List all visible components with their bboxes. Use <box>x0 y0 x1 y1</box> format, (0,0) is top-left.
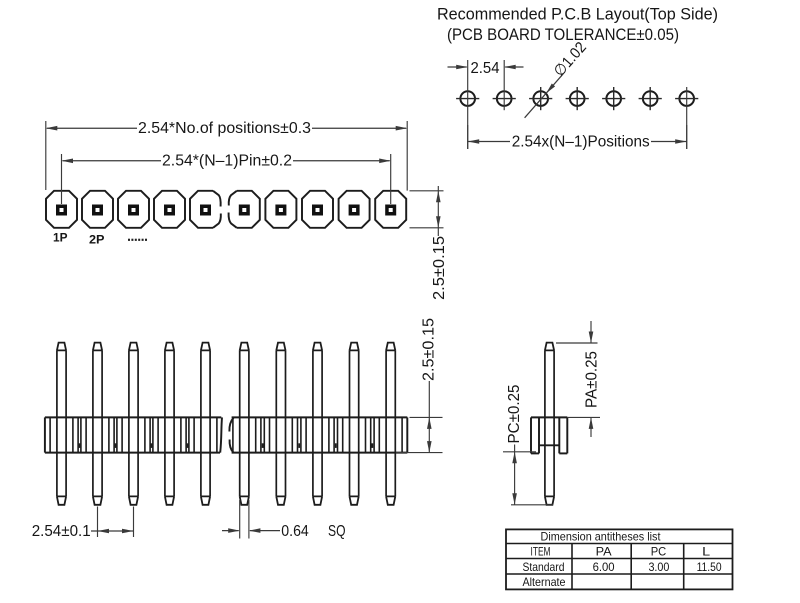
subtitle text: PCB BOARD TOLERANCE +/-0.05 <box>447 26 679 44</box>
dimension 2.54*No.of positions +/-0.3 <box>46 120 407 191</box>
svg-text:ITEM: ITEM <box>531 545 551 559</box>
svg-text:Alternate: Alternate <box>523 575 566 589</box>
pin 3 (side view) <box>129 343 138 505</box>
leader line dia 1.02 <box>525 74 564 118</box>
segment junction mark 8-9 <box>335 443 337 448</box>
header position 2 plastic body (top view) <box>82 191 113 228</box>
header position 1 plastic body (top view) <box>46 191 77 228</box>
pin 6 (side view) <box>240 343 249 505</box>
insulator segment lines pin 3 <box>117 417 150 452</box>
segment junction mark 7-8 <box>298 443 300 448</box>
single pin insulator body <box>531 417 567 453</box>
pin 1 (side view) <box>57 343 66 505</box>
header position 10 plastic body (top view) <box>375 191 406 228</box>
svg-text:Dimension antitheses list: Dimension antitheses list <box>541 530 662 544</box>
svg-text:PA: PA <box>596 545 612 559</box>
svg-text:3.00: 3.00 <box>648 560 669 574</box>
pin 8 (side view) <box>313 343 322 505</box>
svg-text:2.54x(N–1)Positions: 2.54x(N–1)Positions <box>512 133 650 150</box>
dimension table <box>506 529 733 589</box>
dimension PC +/-0.25 <box>503 385 553 505</box>
svg-text:11.50: 11.50 <box>697 560 722 574</box>
label dia 1.02 rotated <box>551 39 590 80</box>
label 2P <box>89 232 105 246</box>
pin 2 (side view) <box>93 343 102 505</box>
insulator band left section (side view) <box>45 417 222 452</box>
PCB pad hole 6 <box>639 87 662 110</box>
svg-text:Recommended P.C.B Layout(Top: Recommended P.C.B Layout(Top Side) <box>437 6 718 24</box>
segment junction mark 9-10 <box>372 443 374 448</box>
svg-text:0.64: 0.64 <box>281 523 309 540</box>
insulator segment lines pin 5 <box>189 417 217 452</box>
PCB pad hole 5 <box>602 87 625 110</box>
ellipsis dots <box>128 239 147 241</box>
svg-text:1P: 1P <box>53 231 68 245</box>
pin 4 (side view) <box>165 343 174 505</box>
insulator segment lines pin 8 <box>301 417 334 452</box>
table header row <box>531 545 711 559</box>
segment junction mark 2-3 <box>115 443 117 448</box>
header position 3 plastic body (top view) <box>118 191 149 228</box>
header position 4 plastic body (top view) <box>154 191 185 228</box>
dimension 2.54 +/-0.1 pin pitch (side view) <box>32 507 134 540</box>
PCB pad hole 4 <box>566 87 589 110</box>
svg-text:Standard: Standard <box>523 560 565 574</box>
dimension PA +/-0.25 <box>556 321 600 437</box>
svg-text:6.00: 6.00 <box>593 560 615 574</box>
pin 10 (side view) <box>386 343 395 505</box>
svg-text:PC: PC <box>651 545 667 559</box>
header position 7 plastic body (top view) <box>265 191 296 228</box>
svg-text:PC±0.25: PC±0.25 <box>506 385 523 444</box>
svg-text:2.54*(N–1)Pin±0.2: 2.54*(N–1)Pin±0.2 <box>162 152 292 169</box>
dimension 0.64 SQ pin size <box>222 500 346 540</box>
dimension 2.54x(N-1)Positions <box>468 125 687 150</box>
svg-text:(PCB BOARD TOLERANCE±0.05): (PCB BOARD TOLERANCE±0.05) <box>447 26 679 44</box>
insulator segment lines pin 9 <box>338 417 371 452</box>
table row Alternate <box>523 575 566 589</box>
svg-text:2P: 2P <box>89 232 105 246</box>
insulator segment lines pin 1 <box>50 417 78 452</box>
PCB pad hole 7 <box>675 87 698 149</box>
label 1P <box>53 231 68 245</box>
header position 9 plastic body (top view) <box>339 191 370 228</box>
svg-text:2.5±0.15: 2.5±0.15 <box>431 236 448 300</box>
insulator band right section (side view) <box>229 417 407 452</box>
insulator segment lines pin 6 <box>233 417 261 452</box>
segment junction mark 6-7 <box>262 443 264 448</box>
PCB pad hole 2 <box>493 60 516 110</box>
PCB pad hole 1 <box>456 60 479 149</box>
svg-text:2.5±0.15: 2.5±0.15 <box>420 318 437 381</box>
insulator segment lines pin 4 <box>153 417 186 452</box>
pin 9 (side view) <box>350 343 359 505</box>
header position 8 plastic body (top view) <box>302 191 333 228</box>
dimension 2.54 pad pitch <box>448 60 524 77</box>
title text: Recommended P.C.B Layout(Top Side) <box>437 6 718 24</box>
table row Standard <box>523 560 722 574</box>
segment junction mark 1-2 <box>79 443 81 448</box>
insulator segment lines pin 10 <box>374 417 402 452</box>
dimension 2.5 +/-0.15 (top view height) <box>410 186 448 300</box>
single pin (detail view) <box>545 343 554 505</box>
svg-text:PA±0.25: PA±0.25 <box>583 351 600 408</box>
svg-text:2.54: 2.54 <box>471 60 500 77</box>
pin 7 (side view) <box>276 343 285 505</box>
svg-text:2.54*No.of positions±0.3: 2.54*No.of positions±0.3 <box>138 120 311 137</box>
PCB pad hole 3 <box>529 87 552 110</box>
svg-text:SQ: SQ <box>328 523 346 540</box>
insulator segment lines pin 2 <box>81 417 114 452</box>
insulator segment lines pin 7 <box>264 417 297 452</box>
pin 5 (side view) <box>201 343 210 505</box>
dimension 2.5 +/-0.15 (side view band height) <box>396 318 443 453</box>
svg-text:2.54±0.1: 2.54±0.1 <box>32 523 91 540</box>
header position 6 plastic body (top view) <box>229 191 260 228</box>
svg-text:L: L <box>702 545 711 559</box>
header position 5 plastic body (top view) <box>190 191 221 228</box>
segment junction mark 4-5 <box>187 443 189 448</box>
table title: Dimension antitheses list <box>541 530 662 544</box>
segment junction mark 3-4 <box>151 443 153 448</box>
dimension 2.54*(N-1)Pin +/-0.2 <box>62 152 391 204</box>
